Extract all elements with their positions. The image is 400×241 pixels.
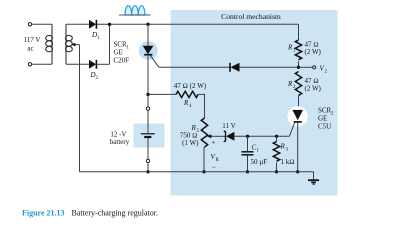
transformer secondary winding (66, 24, 73, 64)
junction: C1 top (246, 135, 249, 138)
wire: R5 to bottom rail (203, 147, 205, 172)
label 12-V battery (110, 131, 130, 147)
svg-text:1: 1 (97, 36, 100, 41)
center tap arrow and wire (71, 43, 79, 47)
label R5 750ohm 1W (180, 124, 200, 147)
label + VR - (211, 138, 220, 172)
svg-text:C5U: C5U (318, 123, 331, 131)
wire: R4 to R5 (198, 94, 204, 118)
wire: bottom rail (80, 171, 314, 173)
label Control mechanism (221, 12, 281, 21)
label R4 (183, 99, 192, 109)
svg-text:SCR: SCR (114, 41, 128, 49)
ground (308, 172, 319, 184)
junction: R1 R2 node (297, 66, 300, 69)
terminal above battery (146, 107, 149, 110)
svg-text:GE: GE (114, 49, 123, 57)
svg-text:50 µF: 50 µF (251, 158, 268, 166)
terminal (117V bottom) (28, 63, 31, 66)
junction: rail at x=148 (146, 23, 149, 26)
svg-text:−: − (212, 163, 216, 172)
svg-text:2: 2 (96, 76, 99, 81)
terminal (117V top) (28, 23, 31, 26)
svg-text:117 V: 117 V (24, 36, 41, 44)
wire: primary bottom lead (32, 63, 52, 65)
label SCR2 GE C5U (318, 107, 334, 131)
resistor R1 (295, 24, 301, 67)
resistor R3 (273, 136, 279, 172)
SCR2 (289, 110, 303, 172)
terminal below battery (146, 159, 149, 162)
svg-text:Battery-charging regulator.: Battery-charging regulator. (72, 209, 159, 218)
wire: terminal to battery (147, 110, 149, 133)
svg-text:1 kΩ: 1 kΩ (281, 158, 295, 166)
label SCR1 GE C20F (114, 41, 130, 65)
label R3 1kohm (280, 143, 295, 167)
label 11 V (222, 122, 235, 130)
diode D2 (89, 60, 96, 69)
junction: SCR2 cathode at rail (296, 170, 299, 173)
svg-text:Figure 21.13: Figure 21.13 (22, 209, 65, 218)
wire: SCR1 gate to V2 node (159, 66, 230, 68)
svg-text:Control mechanism: Control mechanism (221, 12, 281, 21)
capacitor C1 (242, 136, 254, 172)
junction: C1 bottom (246, 170, 249, 173)
junction: rail at x=110 (108, 23, 111, 26)
label D2 (90, 71, 99, 81)
wire: to R4 (148, 93, 176, 95)
svg-text:(2 W): (2 W) (305, 48, 322, 56)
svg-text:GE: GE (318, 115, 327, 123)
label R2 47ohm 2W (287, 77, 322, 93)
label R1 47ohm 2W (287, 41, 322, 57)
svg-text:battery: battery (110, 138, 130, 146)
label C1 50uF (251, 144, 268, 167)
battery 12V (141, 134, 155, 137)
wiper arrow of R5 (207, 134, 226, 138)
wire: primary top lead (32, 23, 52, 25)
junction: R3 bottom (275, 170, 278, 173)
svg-text:(1 W): (1 W) (182, 139, 199, 147)
junction: battery at rail (146, 170, 149, 173)
SCR1 halo (139, 41, 158, 60)
label 117 V ac (24, 36, 41, 53)
svg-text:47 Ω (2 W): 47 Ω (2 W) (174, 82, 207, 90)
svg-text:11 V: 11 V (222, 122, 235, 130)
wire: diode to R1 R2 junction (240, 66, 299, 68)
label 47ohm 2W for R4 (174, 82, 207, 90)
wire: center tap down to bottom rail (79, 45, 81, 172)
wire: D2 cathode up to rail (96, 24, 109, 64)
battery highlight box (134, 124, 165, 148)
svg-text:SCR: SCR (318, 107, 332, 115)
waveform icon (119, 6, 151, 15)
svg-text:1: 1 (127, 46, 130, 51)
SCR1 (143, 24, 159, 67)
SCR2 halo (287, 106, 307, 126)
junction: R5 at rail (202, 170, 205, 173)
wire: top rail y=24 (66, 23, 299, 25)
junction: R4 tap (146, 93, 149, 96)
diode D1 (89, 20, 96, 29)
resistor R4 (176, 91, 198, 97)
svg-text:ac: ac (27, 45, 33, 53)
control mechanism shaded box (171, 10, 338, 196)
junction: R3 top (275, 135, 278, 138)
svg-text:(2 W): (2 W) (305, 85, 322, 93)
wire: battery to lower terminal (147, 138, 149, 159)
diode D3 pointing left (230, 63, 240, 72)
resistor R2 (295, 72, 301, 111)
node V2 (299, 65, 328, 75)
wire: zener to SCR2 gate node (234, 135, 289, 137)
transformer primary winding (46, 24, 53, 64)
zener diode 11V (224, 131, 235, 142)
label D1 (91, 31, 100, 41)
potentiometer R5 (201, 118, 207, 147)
caption Figure 21.13 (22, 209, 158, 218)
wire: terminal to bottom rail (147, 163, 149, 172)
svg-text:C20F: C20F (114, 57, 130, 65)
svg-text:+: + (212, 138, 216, 147)
wire: SCR1 cathode down (147, 55, 149, 107)
wire: secondary bottom to D2 (66, 63, 89, 65)
